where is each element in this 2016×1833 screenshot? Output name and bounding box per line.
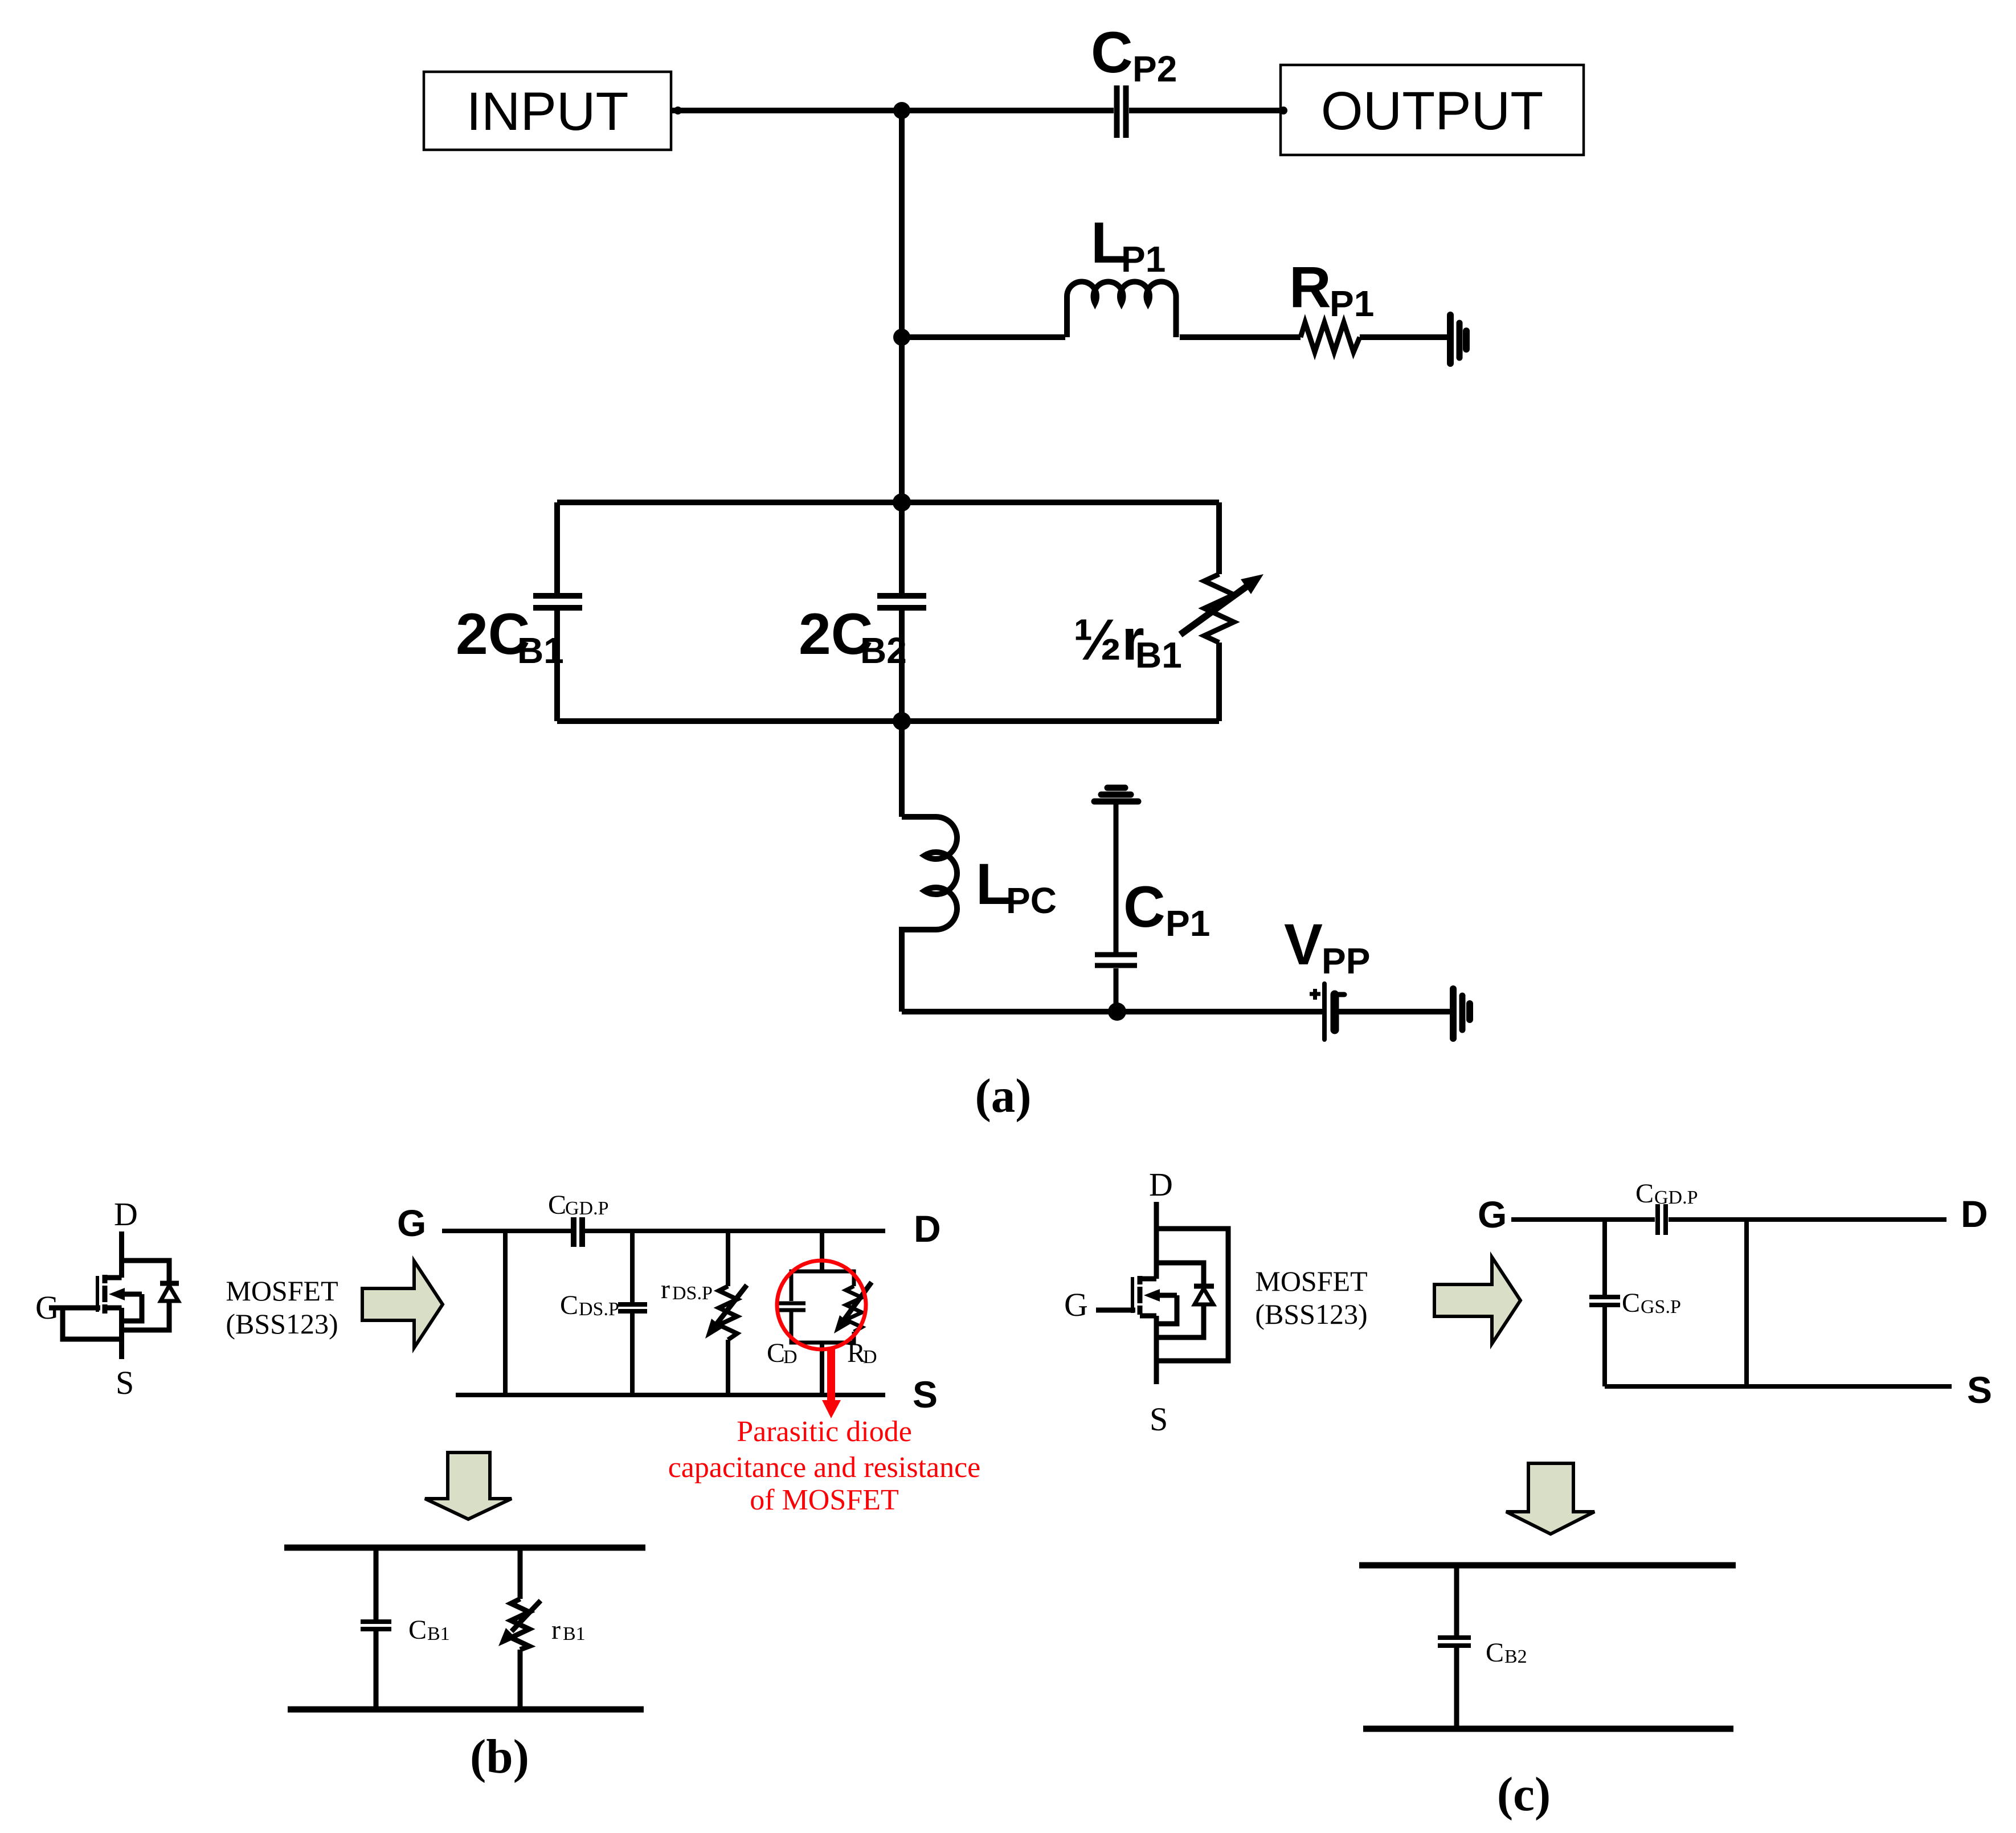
arrow of rDS.P	[715, 1285, 747, 1326]
svg-text:C: C	[1123, 874, 1166, 939]
svg-text:G: G	[1478, 1193, 1507, 1235]
capacitor CP2	[1117, 85, 1126, 138]
wire CB1 branch	[374, 1548, 379, 1709]
Q1 gate-source loop	[63, 1308, 122, 1339]
svg-text:B2: B2	[1504, 1646, 1527, 1667]
Q1 body-source tie	[122, 1294, 142, 1321]
svg-text:MOSFET: MOSFET	[226, 1275, 338, 1307]
Q2 body arrowhead	[1144, 1289, 1160, 1302]
resistor rB1 zigzag	[511, 1599, 529, 1650]
svg-text:D: D	[783, 1347, 798, 1368]
svg-text:C: C	[1486, 1638, 1504, 1668]
Q2 drain lead	[1154, 1202, 1159, 1279]
capacitor CGD.P (b) plates	[574, 1217, 582, 1247]
Q2 body-source tie	[1156, 1295, 1177, 1324]
svg-text:PP: PP	[1322, 940, 1370, 981]
capacitor CDS.P plates	[618, 1304, 647, 1311]
Q2 diode cathode bar	[1194, 1284, 1214, 1289]
bottom wire	[902, 1009, 1450, 1014]
svg-text:P2: P2	[1132, 48, 1177, 89]
capacitor CGD.P (c) plates	[1658, 1204, 1666, 1235]
svg-text:R: R	[1289, 255, 1331, 320]
box top rail	[557, 500, 1219, 505]
node S rail (b) bottom	[456, 1393, 885, 1397]
box left edge	[554, 502, 560, 721]
capacitor 2CB2	[877, 596, 926, 608]
node A top	[893, 102, 910, 119]
svg-text:S: S	[1967, 1369, 1992, 1411]
capacitor CGS.P plates	[1589, 1297, 1620, 1305]
wire CP2 to OUTPUT	[1129, 108, 1281, 113]
ground end of bottom wire	[1450, 989, 1457, 1038]
Q2 gate bar	[1131, 1277, 1134, 1313]
svg-text:capacitance and resistance: capacitance and resistance	[668, 1451, 981, 1484]
svg-text:of MOSFET: of MOSFET	[750, 1484, 898, 1516]
Q1 gate wire	[49, 1306, 100, 1311]
svg-text:G: G	[397, 1202, 426, 1244]
svg-text:(c): (c)	[1497, 1767, 1551, 1821]
wire main vertical	[899, 111, 905, 502]
svg-text:GD.P: GD.P	[565, 1198, 609, 1219]
svg-text:PC: PC	[1006, 880, 1057, 921]
capacitor CB2 plates	[1438, 1638, 1471, 1646]
Q2 inner diode loop	[1156, 1263, 1204, 1337]
Q1 source stub	[105, 1306, 122, 1311]
svg-text:S: S	[1150, 1401, 1168, 1438]
svg-text:GD.P: GD.P	[1654, 1187, 1698, 1208]
svg-text:Parasitic diode: Parasitic diode	[737, 1415, 912, 1448]
svg-text:r: r	[661, 1274, 670, 1304]
svg-text:C: C	[560, 1290, 578, 1320]
wire nub at OUTPUT	[1279, 107, 1287, 114]
node S rail (c) bottom	[1605, 1384, 1952, 1389]
svg-text:S: S	[913, 1373, 938, 1415]
wire left shunt (b)	[503, 1231, 508, 1395]
Q2 channel dashes	[1138, 1276, 1143, 1315]
wire branch CD RD	[820, 1231, 824, 1395]
OUTPUT box	[1281, 65, 1584, 155]
wire branch rDS.P	[726, 1231, 730, 1395]
node D box bottom	[893, 712, 911, 730]
wire rB1 branch	[518, 1548, 523, 1709]
svg-text:INPUT: INPUT	[467, 81, 629, 142]
arrow of RD	[842, 1282, 872, 1323]
svg-text:C: C	[1091, 20, 1133, 85]
rail top (c) bottom circuit	[1359, 1562, 1736, 1569]
ground after RP1	[1447, 315, 1454, 363]
box bottom rail	[557, 718, 1219, 724]
svg-text:r: r	[551, 1615, 561, 1645]
svg-text:C: C	[767, 1338, 785, 1368]
Q1 body arrow	[122, 1292, 142, 1297]
wire LP1 row	[902, 334, 1450, 340]
red circle highlight	[777, 1261, 866, 1349]
resistor RD zigzag	[846, 1286, 862, 1332]
node G rail (c) top	[1511, 1217, 1947, 1222]
resistor rDS.P zigzag	[719, 1286, 737, 1340]
capacitor 2CB1	[533, 596, 582, 608]
Q1 body diode branch	[122, 1261, 170, 1330]
svg-text:(b): (b)	[470, 1730, 529, 1783]
wire middle shunt (c)	[1744, 1220, 1749, 1386]
svg-text:DS.P: DS.P	[579, 1299, 619, 1320]
svg-text:S: S	[116, 1364, 134, 1401]
capacitor CD plates	[776, 1303, 805, 1310]
Q2 drain stub	[1140, 1276, 1156, 1282]
svg-text:½r: ½r	[1073, 607, 1144, 672]
Q2 body arrow	[1158, 1293, 1177, 1298]
svg-text:MOSFET: MOSFET	[1255, 1265, 1367, 1297]
middle branch wire	[899, 502, 905, 721]
inductor LP1	[1067, 281, 1176, 337]
Q2 diode triangle	[1195, 1288, 1213, 1304]
svg-text:D: D	[114, 1196, 138, 1233]
wire CB2 branch	[1454, 1565, 1459, 1729]
capacitor CB1 plates	[361, 1622, 391, 1629]
box CD RD	[791, 1271, 854, 1343]
svg-text:P1: P1	[1330, 283, 1374, 324]
node C box top	[893, 493, 911, 512]
wire LPC vertical upper	[899, 721, 905, 817]
svg-text:G: G	[1064, 1286, 1088, 1323]
svg-text:DS.P: DS.P	[672, 1283, 713, 1304]
wire CP1 branch	[1114, 804, 1119, 1012]
inductor LPC	[902, 817, 957, 1012]
wire left branch CGS.P	[1602, 1220, 1607, 1386]
svg-text:B1: B1	[1135, 635, 1182, 676]
box right edge	[1216, 502, 1222, 721]
svg-text:D: D	[1149, 1166, 1173, 1203]
svg-text:(BSS123): (BSS123)	[1255, 1298, 1367, 1330]
Q2 source lead	[1154, 1316, 1159, 1384]
Q2 source stub	[1140, 1314, 1156, 1319]
Q1 body arrowhead	[109, 1288, 125, 1300]
wire branch CDS.P	[630, 1231, 635, 1395]
node B LP1	[893, 329, 910, 346]
red pointer arrow	[827, 1349, 835, 1402]
green right arrow (c)	[1434, 1257, 1520, 1344]
node E CP1	[1108, 1003, 1126, 1021]
svg-text:V: V	[1284, 912, 1323, 977]
variable resistor half rB1 zigzag	[1204, 574, 1234, 643]
Q1 diode triangle	[161, 1286, 178, 1301]
Q2 gate wire	[1096, 1308, 1135, 1313]
arrow of variable resistor half rB1	[1180, 582, 1253, 635]
Q2 outer loop	[1156, 1229, 1228, 1361]
INPUT box	[424, 72, 671, 150]
battery VPP	[1322, 984, 1327, 1040]
svg-text:B1: B1	[427, 1623, 450, 1644]
Q1 drain lead	[119, 1231, 124, 1278]
svg-text:P1: P1	[1166, 903, 1210, 944]
svg-text:B2: B2	[860, 630, 907, 671]
svg-text:D: D	[863, 1347, 877, 1368]
rail bottom (b) bottom circuit	[288, 1707, 644, 1713]
rail top (b) bottom circuit	[284, 1545, 645, 1551]
green right arrow (b)	[362, 1261, 443, 1348]
Q1 gate bar	[96, 1276, 99, 1312]
svg-text:D: D	[1961, 1193, 1988, 1235]
svg-text:(BSS123): (BSS123)	[226, 1308, 338, 1340]
svg-text:C: C	[408, 1615, 427, 1645]
svg-text:B1: B1	[563, 1623, 586, 1644]
green down arrow (c)	[1506, 1463, 1594, 1534]
svg-text:C: C	[1622, 1288, 1640, 1318]
wire nub at INPUT	[674, 107, 682, 114]
svg-text:GS.P: GS.P	[1641, 1296, 1681, 1318]
resistor RP1	[1301, 322, 1360, 352]
svg-text:C: C	[548, 1190, 566, 1220]
ground top of CP1	[1107, 785, 1125, 791]
arrow of rB1	[512, 1601, 541, 1631]
Q1 diode cathode bar	[160, 1281, 179, 1286]
node G rail (b) top	[442, 1229, 885, 1233]
svg-text:OUTPUT: OUTPUT	[1321, 81, 1544, 141]
svg-text:D: D	[914, 1208, 941, 1250]
Q1 source lead	[119, 1308, 124, 1359]
svg-text:G: G	[35, 1289, 59, 1326]
svg-text:(a): (a)	[975, 1069, 1031, 1123]
Q1 channel dashes	[103, 1275, 108, 1314]
rail bottom (c) bottom circuit	[1363, 1726, 1733, 1732]
green down arrow (b)	[425, 1453, 512, 1519]
capacitor CP1	[1095, 955, 1137, 965]
Q1 drain stub	[105, 1275, 122, 1280]
svg-text:B1: B1	[517, 630, 564, 671]
wire INPUT to CP2	[671, 108, 1114, 113]
svg-text:P1: P1	[1121, 239, 1166, 280]
svg-text:C: C	[1635, 1179, 1654, 1209]
